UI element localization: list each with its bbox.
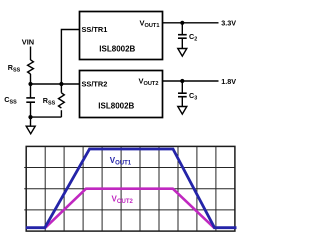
wire VOUT2 output: [163, 80, 219, 82]
ground (C3): [178, 107, 187, 115]
node VOUT2 junction dot: [180, 79, 184, 83]
svg-text:ISL8002B: ISL8002B: [98, 101, 134, 110]
wire R1 to node A: [30, 74, 32, 84]
svg-text:ISL8002B: ISL8002B: [99, 44, 135, 53]
wire node B up to SS/TR1 pin: [61, 30, 79, 85]
svg-text:VIN: VIN: [22, 37, 34, 46]
node B junction dot: [59, 82, 63, 86]
op-amp U2 ISL8002B (lower regulator): [80, 71, 163, 118]
wire node C to ground: [30, 117, 32, 126]
wire VOUT1 output: [163, 22, 219, 24]
svg-text:1.8V: 1.8V: [221, 77, 236, 86]
capacitor C_SS: [4, 84, 35, 117]
op-amp U1 ISL8002B (upper regulator): [80, 12, 163, 60]
resistor R_SS (lower): [43, 84, 65, 117]
ground (C2): [178, 49, 187, 57]
wire node A horizontal to node B: [31, 83, 62, 85]
capacitor C3: [178, 81, 197, 106]
node VOUT1 junction dot: [180, 21, 184, 25]
resistor R_SS (soft-start, upper): [8, 60, 34, 74]
svg-text:SS/TR1: SS/TR1: [82, 25, 108, 34]
capacitor C2: [178, 23, 197, 49]
svg-text:SS/TR2: SS/TR2: [82, 79, 108, 88]
svg-text:3.3V: 3.3V: [221, 19, 236, 28]
node A junction dot: [28, 82, 32, 86]
oscilloscope grid border: [26, 146, 235, 231]
waveform VOUT2 trace: [45, 189, 215, 229]
node C junction dot: [28, 115, 32, 119]
waveform VOUT1 trace: [26, 149, 237, 228]
wire node B to SS/TR2 pin: [61, 83, 79, 85]
ground (soft-start network): [26, 126, 35, 134]
oscilloscope grid: [24, 146, 235, 231]
wire bottom rail: [31, 116, 62, 118]
wire VIN to R1: [30, 47, 32, 61]
